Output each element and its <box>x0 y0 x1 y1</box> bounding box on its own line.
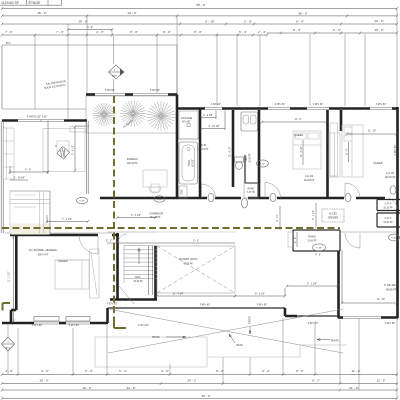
svg-text:5' - 0": 5' - 0" <box>216 369 224 373</box>
wc east / ch2 west wall <box>258 110 261 198</box>
svg-text:11' - 10": 11' - 10" <box>368 131 376 133</box>
west wall of bureau <box>87 121 89 194</box>
svg-text:9' - 0": 9' - 0" <box>161 369 169 373</box>
corridor south wall / master north <box>10 234 119 237</box>
closet shelves between ch2 ch3 <box>329 133 340 177</box>
svg-text:CH. #3: CH. #3 <box>386 171 395 175</box>
svg-text:16' - 0": 16' - 0" <box>39 379 48 383</box>
ch3 door arc <box>345 183 360 198</box>
oval marker P48 wc <box>257 160 269 167</box>
wc door arc <box>245 155 258 198</box>
svg-text:6' - 4": 6' - 4" <box>296 19 304 23</box>
sdb door arc <box>202 184 216 198</box>
svg-text:408.74 PF: 408.74 PF <box>38 255 49 257</box>
svg-text:12' - 6": 12' - 6" <box>376 379 385 383</box>
rug / sofa in open area <box>43 129 85 172</box>
svg-text:140.92 PF: 140.92 PF <box>385 177 396 179</box>
small rect right of ouvert <box>288 232 293 247</box>
svg-text:162.24 PF: 162.24 PF <box>127 163 138 165</box>
dim row 29'-0 / 6'-10 / 2'-6 / 12'-0 <box>2 23 397 25</box>
dim row 2 <box>2 383 397 385</box>
svg-text:12' - 4 3/4": 12' - 4 3/4" <box>173 294 184 296</box>
douche room <box>179 111 198 139</box>
svg-text:6' - 2": 6' - 2" <box>312 379 320 383</box>
svg-text:3' - 0": 3' - 0" <box>87 27 93 29</box>
svg-text:GRENIER: GRENIER <box>328 218 339 220</box>
dim row 45'-0 / 14'-0 / 36'-0 <box>2 15 397 17</box>
svg-text:10.32 PF: 10.32 PF <box>383 208 393 210</box>
svg-text:4' - 1 1/2": 4' - 1 1/2" <box>313 210 315 220</box>
svg-text:ÉTAGE: ÉTAGE <box>29 0 42 5</box>
svg-text:12' - 0": 12' - 0" <box>374 19 383 23</box>
svg-text:8' - 4": 8' - 4" <box>293 28 301 32</box>
svg-text:F 48"x 54": F 48"x 54" <box>376 104 387 106</box>
s de jeux west wall <box>337 251 340 318</box>
door ovals bottom ch2 ch3 <box>242 198 248 208</box>
svg-text:11' - 10": 11' - 10" <box>377 299 385 301</box>
svg-text:G.R. 5: G.R. 5 <box>385 218 392 220</box>
vert dim corridor x301 <box>280 203 316 230</box>
extension lines down <box>18 318 397 398</box>
svg-text:65' - 0": 65' - 0" <box>196 3 205 7</box>
svg-text:F 60"x 60": F 60"x 60" <box>32 325 43 327</box>
svg-text:P. 30": P. 30" <box>79 201 85 203</box>
rang room walls <box>293 230 340 251</box>
svg-text:F 60"x42": F 60"x42" <box>211 104 221 106</box>
door arc right of rang <box>345 233 360 248</box>
svg-text:16.95 PF: 16.95 PF <box>250 153 252 163</box>
svg-text:F 48"x 54": F 48"x 54" <box>313 104 324 106</box>
rang oval <box>313 244 326 251</box>
svg-text:G.R. 4: G.R. 4 <box>385 204 392 206</box>
svg-text:1119.63 SF: 1119.63 SF <box>1 1 20 5</box>
svg-text:1' - 10 3/4": 1' - 10 3/4" <box>14 178 25 180</box>
ch2 dresser <box>330 123 338 176</box>
patio wall with sliding door <box>2 119 87 122</box>
svg-text:5' - 2": 5' - 2" <box>262 369 270 373</box>
small olive elbow left bottom <box>3 303 11 311</box>
svg-text:6' - 0": 6' - 0" <box>333 28 341 32</box>
bottom-left section diamond <box>2 325 15 374</box>
svg-text:5' - 0": 5' - 0" <box>193 241 199 243</box>
svg-text:5' - 0": 5' - 0" <box>106 241 112 243</box>
svg-text:2' - 6": 2' - 6" <box>244 19 252 23</box>
s de jeux south wall w/ window <box>338 316 343 319</box>
svg-text:44' - 0": 44' - 0" <box>126 386 135 390</box>
svg-text:QUEEN: QUEEN <box>294 133 303 137</box>
svg-text:144.28 PF: 144.28 PF <box>304 180 315 182</box>
room labels <box>29 116 399 292</box>
svg-text:6' - 10": 6' - 10" <box>205 19 214 23</box>
svg-text:F 60"x 60": F 60"x 60" <box>257 305 268 307</box>
svg-text:F 60"x60": F 60"x60" <box>150 90 160 92</box>
deck north edge <box>108 307 286 309</box>
svg-text:P. 48": P. 48" <box>316 247 322 249</box>
master left dim <box>12 236 15 323</box>
top dimension rows <box>1 3 398 119</box>
svg-text:5' - 4": 5' - 4" <box>239 30 247 34</box>
vertical dim 9-6 1/2 <box>74 127 76 171</box>
ch3 bed <box>342 125 363 177</box>
svg-text:X: X <box>55 144 57 148</box>
svg-text:12' - 4 1/2": 12' - 4 1/2" <box>230 146 232 157</box>
svg-text:95.55 PF: 95.55 PF <box>183 264 193 266</box>
svg-text:14' - 0": 14' - 0" <box>127 11 136 15</box>
svg-text:2' - 6": 2' - 6" <box>96 30 104 34</box>
svg-text:F 60"x 60": F 60"x 60" <box>385 323 396 325</box>
svg-text:12' - 6": 12' - 6" <box>347 148 349 155</box>
walls <box>1 90 400 324</box>
dim row 4 <box>2 397 397 399</box>
svg-text:P. 30": P. 30" <box>157 199 163 201</box>
svg-text:4' - 3 5/8": 4' - 3 5/8" <box>203 115 213 117</box>
svg-text:10' - 0": 10' - 0" <box>374 28 383 32</box>
bathtub <box>179 142 198 184</box>
dim row 3 <box>2 389 397 391</box>
svg-text:A302: A302 <box>112 75 118 78</box>
svg-text:S. DE JEUX: S. DE JEUX <box>384 283 398 287</box>
dim row small left <box>2 34 267 36</box>
sdj dim <box>341 250 399 305</box>
svg-text:F 84"x 60": F 84"x 60" <box>200 305 211 307</box>
svg-text:5' - 0": 5' - 0" <box>85 369 93 373</box>
svg-text:DOUCHE: DOUCHE <box>181 116 193 120</box>
sdb east wall <box>232 110 235 187</box>
tree 2 <box>120 101 146 127</box>
svg-text:QUEEN: QUEEN <box>373 161 382 165</box>
svg-text:16' - 0": 16' - 0" <box>82 386 91 390</box>
svg-text:11' - 0": 11' - 0" <box>351 369 360 373</box>
svg-text:F 48"x 54": F 48"x 54" <box>275 104 286 106</box>
fireplace diagonal <box>57 146 70 159</box>
svg-text:P. PATIO 132" X 96": P. PATIO 132" X 96" <box>27 116 48 119</box>
svg-text:45' - 0": 45' - 0" <box>201 394 210 398</box>
dim row 65'-0 <box>2 7 397 9</box>
svg-text:B-C: B-C <box>6 41 11 45</box>
accs grenier <box>322 209 344 222</box>
section diamond top <box>109 65 125 93</box>
svg-text:36' - 0": 36' - 0" <box>298 11 307 15</box>
svg-text:42"x 48": 42"x 48" <box>182 122 191 124</box>
ouvert open area <box>157 246 235 293</box>
dim row small right <box>267 32 397 34</box>
svg-text:33.46 PF: 33.46 PF <box>133 281 143 283</box>
svg-text:8' - 1 1/4": 8' - 1 1/4" <box>307 283 317 285</box>
dim row 1 <box>2 373 397 375</box>
svg-text:7' - 6": 7' - 6" <box>56 30 64 34</box>
step at x107 <box>106 308 109 323</box>
deck X diagonals <box>108 309 343 353</box>
svg-text:21' - 6": 21' - 6" <box>349 386 358 390</box>
toilet wc <box>235 157 244 162</box>
svg-text:P. 40": P. 40" <box>391 237 397 239</box>
svg-text:4' - 0": 4' - 0" <box>5 369 13 373</box>
door ovals corridor <box>77 197 88 203</box>
svg-text:CRAN: CRAN <box>236 344 243 347</box>
ch2 door arc <box>265 183 281 199</box>
title table <box>0 0 62 5</box>
svg-text:3' - 10 1/8": 3' - 10 1/8" <box>209 126 220 128</box>
sdb interior dims <box>200 111 216 120</box>
svg-text:F 60"x 60": F 60"x 60" <box>308 323 319 325</box>
svg-text:7' - 6": 7' - 6" <box>5 30 13 34</box>
svg-text:BAIN: BAIN <box>188 160 191 166</box>
svg-text:118.01 PF: 118.01 PF <box>198 149 209 151</box>
svg-text:29' - 0": 29' - 0" <box>78 19 87 23</box>
vanity sinks wc <box>241 112 258 131</box>
svg-text:6' - 3 1/8": 6' - 3 1/8" <box>131 215 141 217</box>
svg-text:11' - 1 1/2": 11' - 1 1/2" <box>8 271 10 282</box>
svg-text:F 60"x 60": F 60"x 60" <box>138 325 149 327</box>
stairs <box>118 234 157 304</box>
rang 3.37 niche <box>244 183 258 198</box>
svg-text:BUREAU: BUREAU <box>127 157 138 161</box>
master door leaf + arc <box>79 235 98 254</box>
svg-text:2' - 6": 2' - 6" <box>295 237 297 243</box>
svg-text:9' - 0": 9' - 0" <box>41 369 49 373</box>
stair shaft walls <box>118 233 156 299</box>
svg-text:F 60"x 60": F 60"x 60" <box>69 325 80 327</box>
svg-text:OUVERT (ROC): OUVERT (ROC) <box>179 257 198 261</box>
svg-text:ESC: ESC <box>135 275 140 279</box>
svg-text:CORRIDOR: CORRIDOR <box>149 212 163 216</box>
planter box <box>86 96 177 133</box>
svg-text:PENTE: PENTE <box>331 341 339 343</box>
bottom dims <box>1 318 398 400</box>
svg-text:8' - 0": 8' - 0" <box>130 30 138 34</box>
master west wall <box>15 235 18 310</box>
svg-text:7' - 3 1/8": 7' - 3 1/8" <box>62 219 72 221</box>
top wall left section with windows <box>86 93 95 96</box>
svg-text:A201: A201 <box>6 347 12 350</box>
svg-text:5' - 2": 5' - 2" <box>119 369 127 373</box>
tree 1 <box>93 103 116 126</box>
master entry dim <box>46 215 89 223</box>
side dims <box>2 325 15 374</box>
svg-text:QUEEN: QUEEN <box>58 259 67 263</box>
svg-text:9' - 0": 9' - 0" <box>25 170 31 172</box>
terrace and planter <box>2 41 177 133</box>
dim above ouvert <box>107 242 235 244</box>
east wall planter/bath block <box>176 95 179 199</box>
svg-text:8' - 0": 8' - 0" <box>163 30 171 34</box>
svg-text:RANG: RANG <box>308 235 316 239</box>
short row x68-112 <box>68 29 112 31</box>
terrace outline <box>2 45 177 109</box>
svg-text:12' - 3 1/2": 12' - 3 1/2" <box>301 146 303 157</box>
ch2 room dim <box>261 121 329 124</box>
svg-text:60"x32": 60"x32" <box>193 159 195 167</box>
svg-text:4' - 10": 4' - 10" <box>277 214 279 221</box>
svg-text:PENTE: PENTE <box>152 337 160 339</box>
svg-text:4' - 2": 4' - 2" <box>315 254 321 256</box>
top wall right section with windows <box>177 107 205 110</box>
svg-text:F 60"x 60": F 60"x 60" <box>107 304 118 306</box>
svg-text:8' - 6": 8' - 6" <box>296 369 304 373</box>
walk-in closet west <box>11 224 50 235</box>
bureau desk <box>143 170 167 187</box>
svg-text:13.92 PF: 13.92 PF <box>383 222 393 224</box>
svg-text:8' - 0": 8' - 0" <box>194 30 202 34</box>
svg-text:W.C.: W.C. <box>246 155 248 160</box>
svg-text:2' - 4": 2' - 4" <box>258 30 266 34</box>
master bed <box>55 260 89 289</box>
svg-text:3.37 PF: 3.37 PF <box>247 192 256 194</box>
west wall sejour <box>1 121 3 233</box>
master south wall <box>2 322 34 325</box>
svg-text:CH. #2: CH. #2 <box>305 174 314 178</box>
right exterior wall <box>396 107 399 318</box>
gr room <box>377 200 400 228</box>
corridor south thin <box>108 231 397 233</box>
interior dims left open area <box>10 121 48 175</box>
wall between douche and sdb <box>199 109 202 199</box>
svg-text:11' - 6": 11' - 6" <box>295 119 302 121</box>
ch3 room dim <box>346 133 399 136</box>
svg-text:11.60 PF: 11.60 PF <box>307 241 317 243</box>
svg-text:45' - 0": 45' - 0" <box>37 11 46 15</box>
fixtures <box>3 111 400 323</box>
olive overlay <box>2 65 340 328</box>
svg-text:8' - 3 1/4": 8' - 3 1/4" <box>255 293 265 295</box>
bottom deck <box>32 304 396 368</box>
svg-text:9' - 6 1/2": 9' - 6 1/2" <box>73 145 75 155</box>
dim below ouvert <box>156 295 237 298</box>
svg-text:611.45 PF: 611.45 PF <box>150 217 161 219</box>
corridor north wall <box>100 197 385 200</box>
tree 3 <box>147 102 176 131</box>
svg-text:LING: LING <box>182 189 184 195</box>
ch2 bed <box>293 131 321 169</box>
svg-text:24' - 2": 24' - 2" <box>187 379 196 383</box>
ch2 east wall <box>326 110 329 199</box>
vertical section line dashed <box>113 96 115 322</box>
closet wall <box>340 110 343 131</box>
dim 8-3 <box>234 288 287 298</box>
ling closet <box>179 186 187 198</box>
svg-text:P. 48": P. 48" <box>260 163 266 165</box>
extension lines down from top dims <box>35 16 177 119</box>
horizontal dashed line <box>2 227 340 229</box>
svg-text:S.D.B: S.D.B <box>199 143 206 147</box>
deck lower outline <box>95 337 207 367</box>
svg-text:PENTE: PENTE <box>250 316 252 324</box>
svg-text:ACCÈS: ACCÈS <box>329 213 337 216</box>
svg-text:RANG: RANG <box>248 188 255 191</box>
svg-text:149.50 PF: 149.50 PF <box>386 290 397 292</box>
